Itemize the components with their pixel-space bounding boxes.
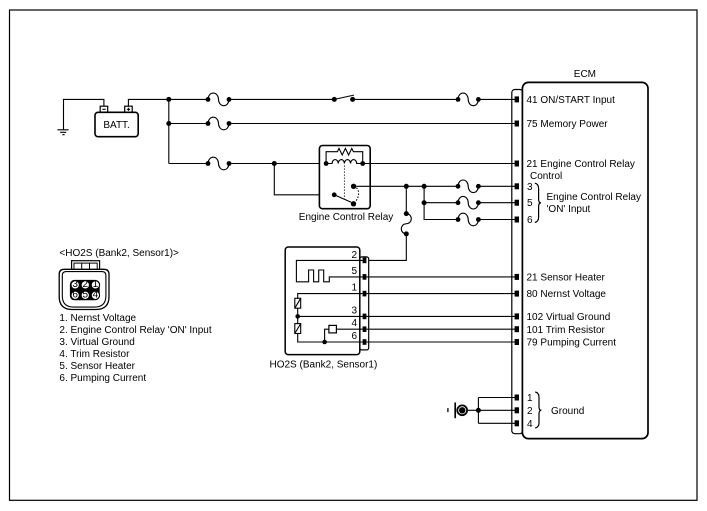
fuse row pin3 [456,180,481,193]
fuse row1 left [206,93,232,106]
HO2S (Bank2, Sensor1) sensor box [285,247,368,355]
svg-text:21 Engine Control Relay: 21 Engine Control Relay [527,159,635,170]
svg-text:2. Engine Control Relay 'ON' I: 2. Engine Control Relay 'ON' Input [59,325,211,336]
node ground junction [476,408,481,413]
brace ground pins [535,392,541,428]
wire row2 to fuse [169,123,208,125]
wire fuse to ECM pin 41 [478,98,515,100]
brace pins 3/5/6 [535,183,541,222]
wire row1 to fuse [169,98,208,100]
wire relay output down to fuse [405,186,407,213]
svg-text:4. Trim Resistor: 4. Trim Resistor [59,349,130,360]
svg-text:3: 3 [527,182,533,193]
ECM [522,69,648,439]
wire HO2S pin4 to ECM pin 101 [366,328,515,330]
connector face illustration (HO2S connector front view) [59,261,109,310]
svg-text:3: 3 [351,306,357,317]
chassis ground (shield ground) [448,403,467,419]
svg-text:2: 2 [527,406,533,417]
svg-text:1. Nernst Voltage: 1. Nernst Voltage [59,313,136,324]
wire battery negative to ground [64,99,104,129]
svg-text:80 Nernst Voltage: 80 Nernst Voltage [527,289,607,300]
wire fuse to ECM pin 75 [229,123,515,125]
svg-text:6: 6 [527,215,533,226]
svg-text:<HO2S (Bank2, Sensor1)>: <HO2S (Bank2, Sensor1)> [59,248,179,259]
fuse row2 [206,117,232,130]
fuse row3 [206,157,232,170]
svg-text:6: 6 [72,290,78,301]
pin 101 [515,326,519,332]
ignition switch [332,95,355,102]
trim resistor [325,325,363,342]
svg-text:75 Memory Power: 75 Memory Power [527,119,609,130]
wire branch down to rows 5 and 6 [424,186,458,219]
svg-text:4: 4 [93,290,99,301]
pin 3 [515,183,519,189]
svg-text:79 Pumping Current: 79 Pumping Current [527,338,617,349]
svg-text:5. Sensor Heater: 5. Sensor Heater [59,361,135,372]
heater element (HO2S heater) [296,260,362,281]
wire bus vertical [168,99,170,163]
pumping cell element [295,324,301,334]
wire fuse to ECM pin 3 [478,185,515,187]
wire ground to junction [467,409,515,411]
svg-text:HO2S (Bank2, Sensor1): HO2S (Bank2, Sensor1) [270,360,378,371]
relay armature link (dotted) [343,166,345,200]
svg-text:ECM: ECM [574,69,596,80]
node bus junction row2 [166,121,171,126]
pin 41 [515,96,519,102]
fuse row pin6 [456,213,481,226]
node fuse top [404,211,409,216]
pin 1 (HO2S) [351,283,366,297]
wire cell to virtual ground node [297,308,299,323]
wire fuse to ignition switch [229,98,334,100]
svg-text:3. Virtual Ground: 3. Virtual Ground [59,337,134,348]
battery BATT. [95,106,138,137]
wire branch down to relay switch contact [274,164,334,195]
wire to ECM pin 1 [478,397,515,399]
node trim resistor junction [322,340,327,345]
svg-text:1: 1 [351,283,357,294]
pin 5 [515,200,519,206]
pin 79 [515,339,519,345]
sensing cell (Nernst cell element) [295,298,301,308]
pin 21 (Engine Control Relay Control) [515,161,519,167]
pin 1 (ground) [515,395,519,401]
svg-text:5: 5 [527,198,533,209]
resistor (relay parallel resistor) [326,148,363,163]
pin 21 (Sensor Heater) [515,274,519,280]
svg-text:6: 6 [351,331,357,342]
pin 6 (HO2S) [351,331,366,345]
pin 80 [515,291,519,297]
ECM connector strip [512,90,523,434]
svg-text:41 ON/START Input: 41 ON/START Input [527,95,616,106]
svg-text:6. Pumping Current: 6. Pumping Current [59,373,146,384]
svg-text:Control: Control [530,171,562,182]
wire battery positive to bus [128,99,168,106]
svg-text:1: 1 [527,393,533,404]
wire to ECM pin 4 [478,422,515,424]
pin 4 (ground) [515,420,519,426]
relay Engine Control Relay [319,146,370,209]
fuse row pin5 [456,196,481,209]
wire HO2S pin5 to ECM pin 21 sensor heater [366,276,515,278]
pin 3 (HO2S) [351,306,366,320]
node branch to relay switch [272,161,277,166]
wire pumping cell to HO2S pin 6 [298,334,363,343]
svg-text:Engine Control Relay: Engine Control Relay [547,192,642,203]
fuse vertical (HO2S heater supply) [401,214,411,237]
wire node to HO2S pin 3 [298,315,363,317]
ground (battery negative earth) [57,130,68,135]
inductor relay coil [326,160,363,164]
wire ground branch vertical [477,398,479,424]
fuse row1 right [456,93,481,106]
wire fuse to HO2S pin 2 [367,234,407,261]
pin 102 [515,313,519,319]
wire switch to fuse [353,98,458,100]
wire fuse to relay coil [229,163,326,165]
wire fuse to ECM pin 6 [478,219,515,221]
svg-text:BATT.: BATT. [103,120,129,131]
svg-text:2: 2 [351,250,357,261]
relay switch [332,192,337,197]
pin 2 (ground) [515,407,519,413]
pin 2 (HO2S) [351,250,366,263]
wire HO2S pin1 to sensing cell [298,294,363,299]
pin 5 (HO2S) [351,266,366,280]
svg-text:5: 5 [83,290,89,301]
wire HO2S pin3 to ECM pin 102 [366,315,515,317]
wire relay switch output [356,185,458,187]
svg-text:4: 4 [527,419,533,430]
svg-text:Engine Control Relay: Engine Control Relay [299,212,394,223]
wire HO2S pin1 to ECM pin 80 [366,293,515,295]
svg-text:3: 3 [72,279,78,290]
node relay output branch 2 [422,184,427,189]
wire branch to fuse row5 [424,202,458,204]
node row5 branch [422,200,427,205]
svg-text:101 Trim Resistor: 101 Trim Resistor [527,325,606,336]
wire relay coil to ECM pin 21 [363,163,515,165]
node relay output branch 1 [404,184,409,189]
node bus junction row1 [166,97,171,102]
svg-text:21 Sensor Heater: 21 Sensor Heater [527,272,606,283]
pin 6 [515,217,519,223]
pin 4 (HO2S) [351,318,366,332]
svg-text:'ON' Input: 'ON' Input [547,204,591,215]
svg-text:5: 5 [351,266,357,277]
pin 75 [515,121,519,127]
svg-text:4: 4 [351,318,357,329]
wire row3 to fuse [169,163,208,165]
svg-text:1: 1 [93,279,99,290]
wire fuse to ECM pin 5 [478,202,515,204]
svg-text:Ground: Ground [551,406,584,417]
svg-text:102 Virtual Ground: 102 Virtual Ground [527,312,611,323]
svg-text:2: 2 [83,279,89,290]
node virtual ground [295,314,300,319]
wire HO2S pin6 to ECM pin 79 [366,341,515,343]
